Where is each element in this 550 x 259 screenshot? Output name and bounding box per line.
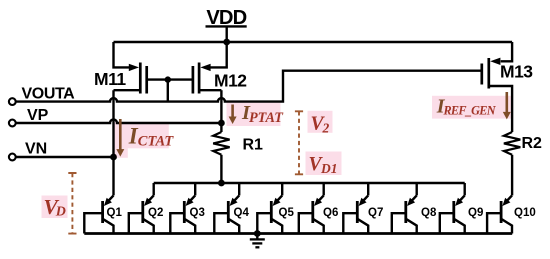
svg-text:Q10: Q10 xyxy=(514,207,536,219)
svg-text:VOUTA: VOUTA xyxy=(22,86,76,103)
svg-text:Q7: Q7 xyxy=(368,207,383,219)
svg-text:VP: VP xyxy=(27,107,49,124)
svg-text:VN: VN xyxy=(25,141,47,158)
svg-text:R1: R1 xyxy=(243,137,264,154)
svg-text:Q5: Q5 xyxy=(279,207,295,219)
svg-text:M12: M12 xyxy=(214,70,247,90)
svg-text:M11: M11 xyxy=(94,69,126,89)
svg-text:Q8: Q8 xyxy=(421,207,437,219)
svg-text:Q9: Q9 xyxy=(468,207,483,219)
svg-text:CTAT: CTAT xyxy=(138,133,175,149)
svg-text:D: D xyxy=(55,205,66,220)
svg-text:R2: R2 xyxy=(522,135,543,152)
svg-text:VDD: VDD xyxy=(206,7,246,29)
svg-text:Q2: Q2 xyxy=(148,207,163,219)
svg-text:D1: D1 xyxy=(320,161,338,176)
svg-text:Q1: Q1 xyxy=(107,207,123,219)
svg-text:Q6: Q6 xyxy=(323,207,338,219)
svg-text:REF_GEN: REF_GEN xyxy=(443,103,497,117)
svg-text:Q4: Q4 xyxy=(234,207,250,219)
svg-text:PTAT: PTAT xyxy=(249,110,284,126)
svg-text:M13: M13 xyxy=(500,62,533,82)
svg-text:2: 2 xyxy=(322,121,330,136)
svg-text:Q3: Q3 xyxy=(190,207,205,219)
